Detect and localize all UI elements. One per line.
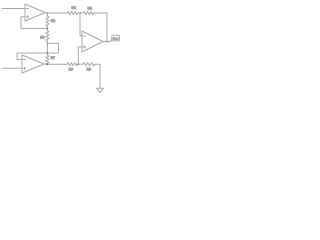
node C: [47, 63, 49, 65]
wire R6 to node D: [77, 63, 84, 65]
ground: [97, 88, 104, 92]
svg-text:R5: R5: [40, 35, 44, 39]
output port flag: [112, 35, 120, 41]
wire R4 to U3 output (feedback): [94, 13, 108, 42]
svg-text:R2: R2: [51, 19, 55, 23]
svg-text:Out: Out: [113, 37, 118, 41]
wire R3 to node E: [78, 12, 83, 14]
wire U3 output: [103, 41, 110, 43]
resistor R8 (horizontal): [83, 63, 95, 66]
op-amp U3: [82, 31, 103, 52]
wire detour node B to U2 inverting input: [17, 43, 59, 59]
wire chain top: [46, 13, 48, 16]
node F: [106, 41, 108, 43]
node U1out: [47, 12, 49, 14]
svg-text:R4: R4: [88, 7, 92, 11]
wire R2 to node A: [46, 27, 48, 31]
wire leader to output flag: [110, 39, 112, 41]
wire chain node B down to R7: [46, 43, 48, 55]
wire R8 to ground drop: [95, 64, 101, 88]
node crossing: [47, 52, 49, 54]
wire input to U2 + input: [2, 67, 22, 69]
svg-text:R6: R6: [69, 68, 73, 72]
wire U1 + input to node A: [21, 17, 47, 29]
resistor R7 (vertical): [46, 55, 49, 65]
node E: [79, 12, 81, 14]
op-amp U1: [25, 4, 45, 21]
node A: [47, 28, 49, 30]
resistor R3 (horizontal, top rail): [67, 11, 78, 14]
op-amp U2: [22, 55, 44, 73]
wire node E down to U3 - input: [80, 13, 82, 36]
node B: [47, 43, 49, 45]
svg-text:R7: R7: [51, 56, 55, 60]
resistor R4 (horizontal, top rail): [83, 11, 94, 14]
wire node D up to U3 + input: [78, 47, 82, 64]
svg-text:R3: R3: [72, 6, 76, 10]
svg-text:R8: R8: [87, 68, 91, 72]
wire input to U1 inverting input: [2, 8, 25, 10]
resistor R5 (vertical): [46, 31, 49, 42]
resistor R2 (vertical): [46, 16, 49, 27]
resistor R6 (horizontal): [67, 63, 77, 66]
wire U2 output / bottom rail: [44, 63, 67, 65]
wire R7 to bottom rail: [46, 63, 48, 66]
wire R5 to node B: [46, 41, 48, 43]
node D: [78, 63, 80, 65]
wire U1 output / top rail: [45, 12, 68, 14]
